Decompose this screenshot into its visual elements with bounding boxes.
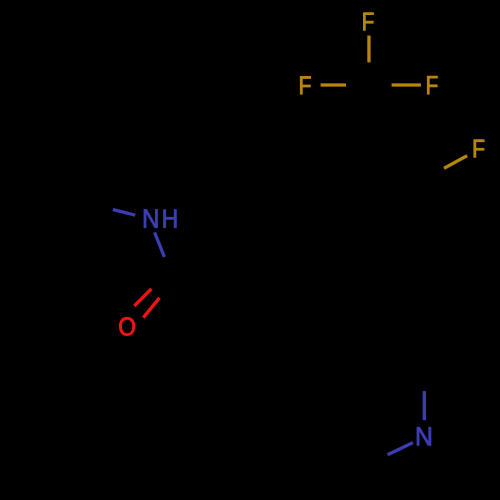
fluorine F2 label (left of CF3)	[300, 76, 310, 94]
ring bond N-C lower-left (half near N)	[388, 443, 413, 455]
amide hydrogen label H (of NH)	[164, 210, 177, 228]
fluorine F1 label (top of CF3)	[363, 13, 373, 31]
bond C-F3 (half near F3)	[392, 83, 421, 86]
C=O double bond second line (half near O)	[134, 289, 151, 306]
bond C-F4 (half near F4)	[444, 156, 467, 169]
C=O double bond main line (half near O)	[143, 298, 159, 318]
amide nitrogen label N (of NH)	[144, 209, 157, 227]
bond N-C carbonyl (half near NH)	[155, 232, 165, 257]
bond C-F2 (half near F2)	[321, 83, 346, 86]
bond alkyl C-N (half near NH)	[113, 210, 136, 216]
fluorine F4 label (aryl fluoride)	[474, 140, 484, 158]
carbonyl oxygen label O	[119, 317, 134, 335]
fluorine F3 label (right of CF3)	[427, 76, 437, 94]
ring bond C-N vertical (half near N)	[423, 391, 426, 420]
pyridine nitrogen label N	[417, 427, 431, 445]
bond C-F1 (half near F1)	[367, 36, 370, 63]
